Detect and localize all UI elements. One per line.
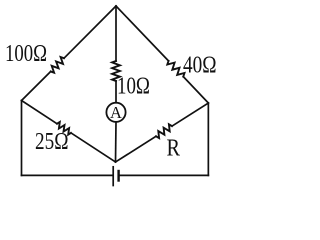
svg-text:R: R <box>167 136 181 162</box>
wire: right node down to bottom-right corner <box>207 103 209 175</box>
svg-text:25Ω: 25Ω <box>35 129 69 155</box>
ammeter A circle <box>106 103 125 122</box>
battery short plate <box>117 171 119 181</box>
wire: resistor R to bottom node <box>116 136 157 162</box>
wire: ammeter to bottom node <box>115 122 118 162</box>
svg-text:40Ω: 40Ω <box>183 52 217 78</box>
svg-text:A: A <box>110 103 122 122</box>
resistor R <box>156 124 172 138</box>
svg-text:10Ω: 10Ω <box>117 74 150 100</box>
resistor 25-ohm <box>57 122 71 135</box>
resistor 100-ohm <box>51 57 64 73</box>
wire: bottom rail left of battery <box>22 174 113 176</box>
wire: top node down to 10-ohm resistor <box>115 6 117 61</box>
battery long plate <box>112 167 114 186</box>
wire: right node to resistor R <box>172 103 208 126</box>
wire: 25-ohm resistor to bottom node <box>71 133 116 162</box>
wire: 40-ohm resistor to right node <box>183 77 208 103</box>
wire: 100-ohm resistor to left node <box>22 72 51 101</box>
resistor 40-ohm <box>167 61 184 77</box>
wire: top node to 100-ohm resistor <box>64 6 116 58</box>
wire: left node down to bottom-left corner <box>21 101 23 176</box>
resistor 10-ohm <box>112 61 120 81</box>
wire: bottom rail right of battery <box>119 174 209 176</box>
wire: 10-ohm resistor to ammeter <box>115 81 117 102</box>
wire: top node to 40-ohm resistor <box>116 6 169 61</box>
svg-text:100Ω: 100Ω <box>5 41 47 67</box>
wire: left node to 25-ohm resistor <box>22 101 58 124</box>
